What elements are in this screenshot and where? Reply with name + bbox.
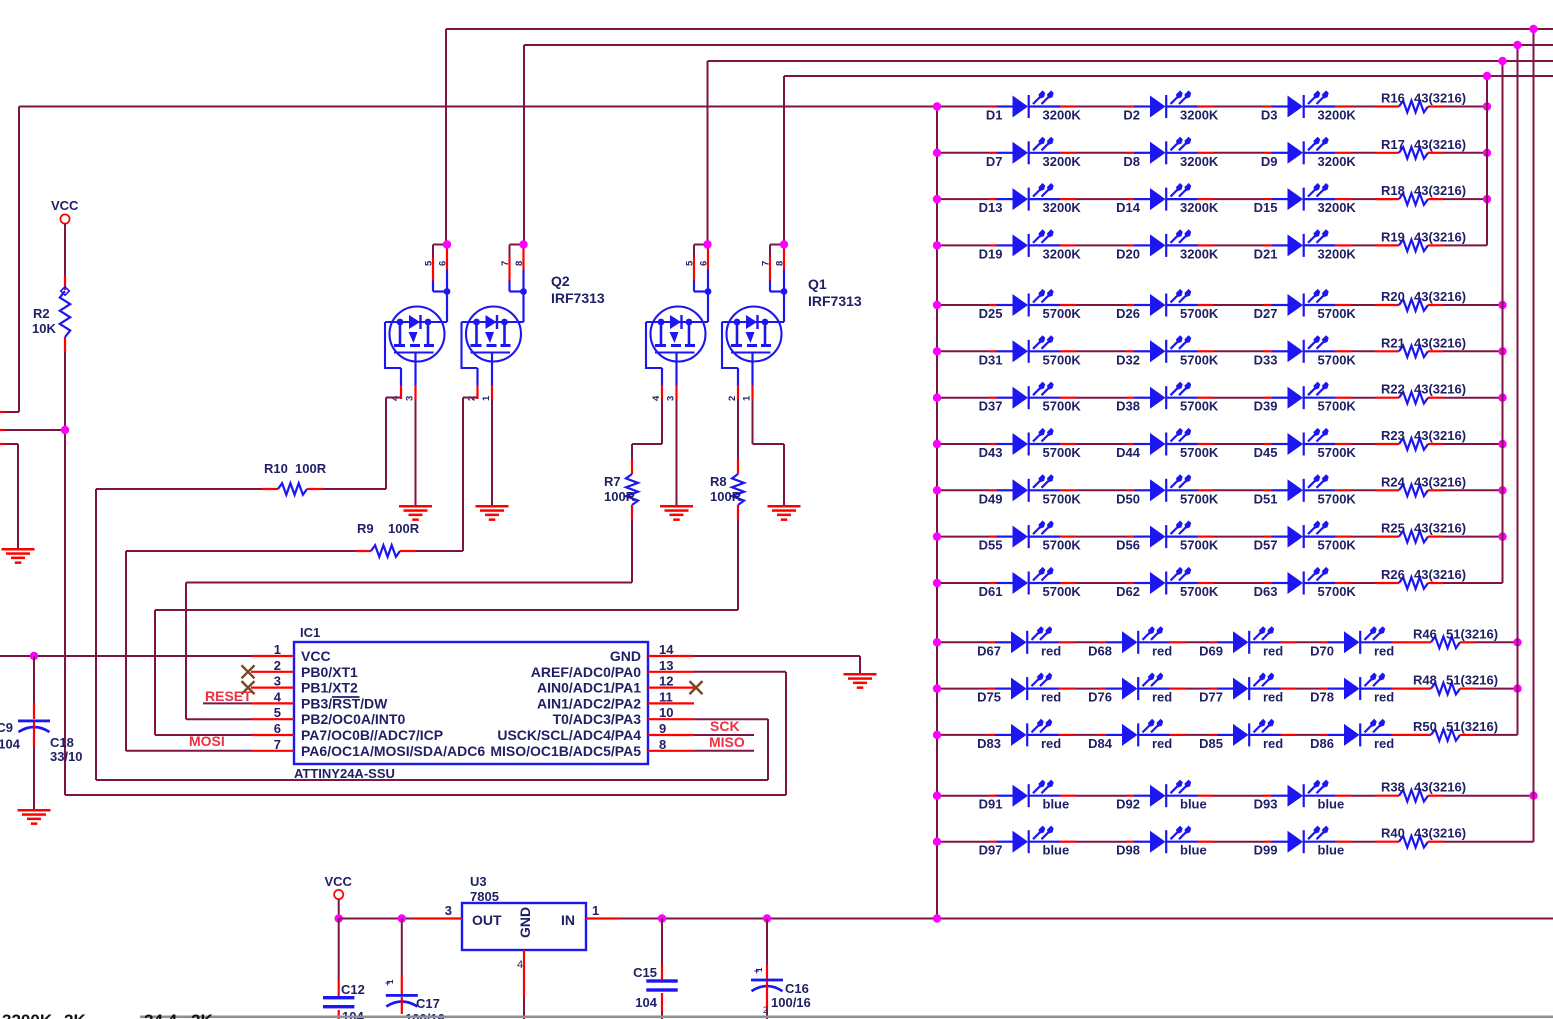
svg-text:VCC: VCC: [51, 198, 79, 213]
svg-text:D1: D1: [986, 108, 1003, 123]
svg-text:R50: R50: [1413, 719, 1437, 734]
svg-text:.: .: [94, 1011, 99, 1019]
U3 pin 3 OUT: [414, 917, 462, 919]
svg-text:red: red: [1263, 736, 1283, 751]
wire Q2B source to ground: [491, 399, 493, 505]
svg-text:D8: D8: [1123, 154, 1140, 169]
IC1 left pin 4 (PB3/RST/DW): [251, 702, 294, 704]
node row D83 left: [933, 731, 941, 739]
LED row D83..: [937, 734, 988, 736]
node RESET junction: [61, 426, 69, 434]
VCC symbol (U3): [334, 890, 343, 899]
svg-text:R24: R24: [1381, 474, 1406, 489]
svg-text:43(3216): 43(3216): [1414, 474, 1466, 489]
IC1 left pin 3 (PB1/XT2): [251, 686, 294, 688]
overbar XT2: [332, 696, 360, 698]
svg-text:5: 5: [424, 260, 435, 266]
svg-text:3200K: 3200K: [1043, 246, 1082, 261]
svg-text:MISO/OC1B/ADC5/PA5: MISO/OC1B/ADC5/PA5: [490, 743, 641, 759]
ground (IC pin14): [844, 673, 877, 676]
LED D45 5700K: [1264, 428, 1351, 456]
svg-text:D49: D49: [979, 491, 1003, 506]
LED row D37..: [937, 397, 989, 399]
U3 pin 1 IN: [586, 917, 620, 919]
ground (Q2 A): [399, 505, 432, 508]
label MISO / wire pin8: [694, 750, 754, 752]
LED D69 red: [1210, 626, 1297, 654]
svg-text:51(3216): 51(3216): [1446, 626, 1498, 641]
resistor R20 43(3216): [1351, 304, 1375, 306]
IC1 left pin 5 (PB2/OC0A/INT0): [251, 718, 294, 720]
node row D31 left: [933, 347, 941, 355]
svg-text:D69: D69: [1199, 643, 1223, 658]
node row D19 left: [933, 241, 941, 249]
svg-text:D50: D50: [1116, 491, 1140, 506]
wire right column 1: [1486, 76, 1488, 245]
wire R46 to column: [1475, 641, 1518, 643]
svg-text:R2: R2: [33, 306, 50, 321]
svg-text:43(3216): 43(3216): [1414, 521, 1466, 536]
svg-text:D83: D83: [977, 736, 1001, 751]
LED row D91..: [937, 795, 989, 797]
svg-text:PB0/XT1: PB0/XT1: [301, 664, 358, 680]
svg-text:2: 2: [763, 1005, 768, 1015]
svg-text:D78: D78: [1310, 690, 1334, 705]
wire VCC to rail: [338, 899, 340, 919]
svg-text:D57: D57: [1254, 538, 1278, 553]
svg-text:5700K: 5700K: [1180, 445, 1219, 460]
svg-text:5700K: 5700K: [1043, 491, 1082, 506]
svg-text:D84: D84: [1088, 736, 1113, 751]
svg-text:D19: D19: [979, 246, 1003, 261]
wire top bus 2: [524, 44, 1553, 46]
wire top bus 4: [784, 75, 1553, 77]
IC1 right pin 10 (T0/ADC3/PA3): [648, 718, 694, 720]
svg-text:100R: 100R: [295, 461, 327, 476]
node col1 top: [1483, 72, 1491, 80]
LED row D1..: [937, 106, 989, 108]
LED D62 5700K: [1127, 567, 1214, 595]
svg-text:3200K: 3200K: [1318, 108, 1357, 123]
svg-text:D2: D2: [1123, 108, 1140, 123]
svg-text:5: 5: [685, 260, 696, 266]
Q1 B source pin 1: [751, 353, 753, 386]
svg-text:D62: D62: [1116, 584, 1140, 599]
resistor R7 100R: [631, 444, 633, 459]
svg-text:red: red: [1374, 643, 1394, 658]
svg-text:13: 13: [659, 658, 673, 673]
svg-text:red: red: [1041, 690, 1061, 705]
transistor Q1 (A half): [646, 307, 708, 369]
svg-text:D44: D44: [1116, 445, 1141, 460]
resistor R10 100R: [96, 488, 262, 490]
svg-text:100R: 100R: [388, 521, 420, 536]
LED D61 5700K: [989, 567, 1076, 595]
svg-text:6: 6: [438, 261, 449, 266]
LED D91 blue: [989, 780, 1076, 808]
resistor R16 43(3216): [1351, 106, 1375, 108]
svg-text:5700K: 5700K: [1318, 538, 1357, 553]
svg-text:5: 5: [274, 705, 281, 720]
node row D91 right: [1529, 792, 1537, 800]
svg-text:1: 1: [742, 395, 753, 401]
svg-text:D70: D70: [1310, 643, 1334, 658]
transistor Q2 (A half): [385, 307, 447, 369]
wire Q2A gate to R10: [386, 397, 401, 399]
svg-text:2K: 2K: [64, 1011, 86, 1019]
wire Q2B gate to R9: [463, 397, 478, 399]
svg-text:5700K: 5700K: [1043, 445, 1082, 460]
node row D13 left: [933, 195, 941, 203]
wire right column 4: [1533, 29, 1535, 842]
resistor R23 43(3216): [1351, 443, 1375, 445]
IC1 right pin 12 (AIN0/ADC1/PA1): [648, 686, 694, 688]
node C18 tap: [30, 652, 38, 660]
LED D92 blue: [1127, 780, 1214, 808]
svg-text:3200K: 3200K: [1318, 246, 1357, 261]
Q2 A source pin 3: [414, 353, 416, 386]
svg-text:3: 3: [445, 903, 452, 918]
resistor R9 100R: [126, 550, 355, 552]
svg-text:MISO: MISO: [709, 734, 745, 750]
transistor Q1 (B half): [722, 307, 784, 369]
capacitor C15 104: [661, 919, 663, 965]
no-connect X pin12: [690, 681, 703, 694]
node row D7 right: [1483, 149, 1491, 157]
no-connect X pin3: [242, 681, 255, 694]
svg-text:R10: R10: [264, 461, 288, 476]
svg-text:red: red: [1152, 643, 1172, 658]
LED D15 3200K: [1264, 183, 1351, 211]
svg-text:U3: U3: [470, 874, 487, 889]
svg-text:D27: D27: [1254, 306, 1278, 321]
Q1 B drain pins 7/8: [770, 244, 784, 246]
svg-text:8: 8: [514, 261, 525, 266]
svg-text:AIN0/ADC1/PA1: AIN0/ADC1/PA1: [537, 680, 641, 696]
wire R26 to column: [1443, 582, 1503, 584]
ground (Q1 A): [660, 505, 693, 508]
svg-text:3: 3: [274, 674, 281, 689]
node row D75 right: [1513, 684, 1521, 692]
node row D97 left: [933, 838, 941, 846]
label SCK / wire pin9: [694, 734, 754, 736]
svg-text:D37: D37: [979, 399, 1003, 414]
svg-text:43(3216): 43(3216): [1414, 137, 1466, 152]
wire R16 to column: [1443, 106, 1487, 108]
svg-text:Q1: Q1: [808, 276, 827, 292]
node C12 tap: [398, 914, 406, 922]
wire R24 to column: [1443, 489, 1503, 491]
wire IC pin1 VCC rail: [0, 655, 251, 657]
LED D57 5700K: [1264, 521, 1351, 549]
LED D27 5700K: [1264, 289, 1351, 317]
wire top bus 3: [708, 60, 1553, 62]
IC1 right pin 11 (AIN1/ADC2/PA2): [648, 702, 694, 704]
wire row-feed from left header: [19, 106, 937, 108]
wire header stub B: [5, 429, 65, 431]
Q2 B gate pin 2: [476, 368, 478, 385]
svg-text:VCC: VCC: [301, 648, 331, 664]
svg-text:IRF7313: IRF7313: [808, 293, 862, 309]
resistor R18 43(3216): [1351, 198, 1375, 200]
wire Q1A gate jog to R7: [661, 399, 663, 444]
wire R50 to column: [1475, 734, 1518, 736]
svg-text:PB2/OC0A/INT0: PB2/OC0A/INT0: [301, 711, 405, 727]
Q1 B gate pin 2: [737, 368, 739, 385]
svg-text:D3: D3: [1261, 108, 1278, 123]
svg-text:D21: D21: [1254, 246, 1278, 261]
svg-text:R22: R22: [1381, 382, 1405, 397]
node C16 tap: [763, 914, 771, 922]
LED D26 5700K: [1127, 289, 1214, 317]
svg-text:C15: C15: [633, 965, 657, 980]
svg-text:D99: D99: [1254, 843, 1278, 858]
IC1 right pin 13 (AREF/ADC0/PA0): [648, 671, 694, 673]
svg-text:red: red: [1152, 736, 1172, 751]
LED D13 3200K: [989, 183, 1076, 211]
resistor R2 10K: [64, 276, 66, 290]
LED D56 5700K: [1127, 521, 1214, 549]
node row D49 left: [933, 486, 941, 494]
wire VCC to R2: [64, 224, 66, 276]
LED D3 3200K: [1264, 90, 1351, 118]
wire Q1A source to ground: [676, 399, 678, 505]
node Q1B drain: [780, 240, 788, 248]
svg-text:D92: D92: [1116, 797, 1140, 812]
node row D37 right: [1498, 394, 1506, 402]
resistor R22 43(3216): [1351, 397, 1375, 399]
resistor R40 43(3216): [1351, 841, 1375, 843]
wire IC pin14 GND to ground: [694, 655, 860, 657]
svg-text:D13: D13: [979, 200, 1003, 215]
svg-text:D20: D20: [1116, 246, 1140, 261]
LED D43 5700K: [989, 428, 1076, 456]
svg-text:D61: D61: [979, 584, 1003, 599]
LED row D49..: [937, 489, 989, 491]
LED D78 red: [1321, 673, 1408, 701]
svg-text:OUT: OUT: [472, 912, 502, 928]
wire R25 to column: [1443, 536, 1503, 538]
Q1 A gate pin 4: [661, 368, 663, 385]
LED D97 blue: [989, 826, 1076, 854]
svg-text:10K: 10K: [32, 321, 56, 336]
node Q2B drain: [519, 240, 527, 248]
LED D37 5700K: [989, 382, 1076, 410]
transistor Q2 (B half): [462, 307, 524, 369]
LED D21 3200K: [1264, 229, 1351, 257]
svg-text:D63: D63: [1254, 584, 1278, 599]
svg-text:3200K: 3200K: [1318, 200, 1357, 215]
svg-text:5700K: 5700K: [1043, 538, 1082, 553]
svg-text:D33: D33: [1254, 352, 1278, 367]
svg-text:R16: R16: [1381, 91, 1405, 106]
svg-text:3200K: 3200K: [1180, 246, 1219, 261]
LED D85 red: [1210, 719, 1297, 747]
svg-text:5700K: 5700K: [1043, 352, 1082, 367]
svg-text:blue: blue: [1180, 797, 1207, 812]
svg-text:6: 6: [274, 721, 281, 736]
node C15 tap: [658, 914, 666, 922]
resistor R19 43(3216): [1351, 244, 1375, 246]
wire R48 to column: [1475, 688, 1518, 690]
LED D39 5700K: [1264, 382, 1351, 410]
svg-text:5700K: 5700K: [1180, 584, 1219, 599]
svg-text:D51: D51: [1254, 491, 1278, 506]
svg-text:2: 2: [274, 658, 281, 673]
capacitor C16 100/16: [766, 919, 768, 966]
resistor R26 43(3216): [1351, 582, 1375, 584]
svg-text:D9: D9: [1261, 154, 1278, 169]
wire R10 right to Q2A gate: [323, 488, 386, 490]
wire R38 to column: [1443, 795, 1534, 797]
LED D31 5700K: [989, 335, 1076, 363]
svg-text:AREF/ADC0/PA0: AREF/ADC0/PA0: [531, 664, 641, 680]
svg-text:D68: D68: [1088, 643, 1112, 658]
svg-text:4: 4: [274, 689, 282, 704]
frame separator line: [140, 1016, 1553, 1019]
svg-text:5700K: 5700K: [1180, 399, 1219, 414]
svg-text:GND: GND: [517, 907, 533, 938]
node row D55 right: [1498, 532, 1506, 540]
svg-text:blue: blue: [1318, 843, 1345, 858]
LED D51 5700K: [1264, 474, 1351, 502]
LED D20 3200K: [1127, 229, 1214, 257]
LED D84 red: [1099, 719, 1186, 747]
svg-text:3: 3: [666, 396, 677, 401]
IC1 right pin 14 (GND): [648, 655, 694, 657]
LED D44 5700K: [1127, 428, 1214, 456]
LED row D61..: [937, 582, 989, 584]
svg-text:8: 8: [775, 261, 786, 266]
LED row D97..: [937, 841, 989, 843]
ground (Q2 B): [476, 505, 509, 508]
wire R22 to column: [1443, 397, 1503, 399]
node row D1 left: [933, 102, 941, 110]
LED D63 5700K: [1264, 567, 1351, 595]
capacitor C12 104: [338, 919, 340, 981]
resistor R50 51(3216): [1406, 734, 1409, 736]
svg-text:104: 104: [635, 995, 657, 1010]
node row D67 right: [1513, 638, 1521, 646]
node row D55 left: [933, 532, 941, 540]
svg-text:IRF7313: IRF7313: [551, 290, 605, 306]
svg-text:D7: D7: [986, 154, 1003, 169]
svg-text:5700K: 5700K: [1043, 399, 1082, 414]
capacitor C17 100/16: [401, 919, 403, 977]
svg-text:VCC: VCC: [325, 874, 353, 889]
IC1 left pin 1 (VCC): [251, 655, 294, 657]
node row D67 left: [933, 638, 941, 646]
svg-text:red: red: [1041, 736, 1061, 751]
svg-text:43(3216): 43(3216): [1414, 91, 1466, 106]
node row D61 left: [933, 579, 941, 587]
svg-text:43(3216): 43(3216): [1414, 229, 1466, 244]
svg-text:blue: blue: [1318, 797, 1345, 812]
svg-text:D39: D39: [1254, 399, 1278, 414]
svg-text:1: 1: [481, 395, 492, 401]
ground (header stub C): [2, 548, 35, 551]
node row D25 left: [933, 301, 941, 309]
Q2 B source pin 1: [491, 353, 493, 386]
svg-text:D14: D14: [1116, 200, 1141, 215]
LED D77 red: [1210, 673, 1297, 701]
wire header stub C: [5, 443, 18, 445]
svg-text:red: red: [1263, 690, 1283, 705]
node row D49 right: [1498, 486, 1506, 494]
LED D76 red: [1099, 673, 1186, 701]
node row D43 left: [933, 440, 941, 448]
svg-text:D55: D55: [979, 538, 1003, 553]
resistor R48 51(3216): [1406, 688, 1409, 690]
svg-text:1: 1: [386, 979, 395, 984]
node col3 top: [1513, 41, 1521, 49]
node row D91 left: [933, 792, 941, 800]
svg-text:3200K: 3200K: [1043, 200, 1082, 215]
svg-text:7: 7: [500, 261, 511, 266]
node Q2A drain: [443, 240, 451, 248]
svg-text:D43: D43: [979, 445, 1003, 460]
LED row D31..: [937, 350, 989, 352]
svg-text:5700K: 5700K: [1318, 352, 1357, 367]
voltage regulator U3 7805: [462, 903, 586, 950]
svg-text:43(3216): 43(3216): [1414, 382, 1466, 397]
svg-text:43(3216): 43(3216): [1414, 780, 1466, 795]
wire top bus 1: [446, 28, 1553, 30]
svg-text:MOSI: MOSI: [189, 733, 225, 749]
LED D86 red: [1321, 719, 1408, 747]
LED D7 3200K: [989, 137, 1076, 165]
svg-text:blue: blue: [1043, 797, 1070, 812]
LED D75 red: [988, 673, 1075, 701]
resistor R25 43(3216): [1351, 536, 1375, 538]
svg-text:3: 3: [405, 396, 416, 401]
svg-text:blue: blue: [1180, 843, 1207, 858]
label MOSI on pin7 wire: [126, 750, 251, 752]
svg-text:D85: D85: [1199, 736, 1223, 751]
svg-text:3200K: 3200K: [2, 1011, 53, 1019]
svg-text:1: 1: [592, 903, 599, 918]
svg-text:D75: D75: [977, 690, 1001, 705]
svg-text:IC1: IC1: [300, 625, 320, 640]
LED row D7..: [937, 152, 989, 154]
node col2 top: [1498, 57, 1506, 65]
svg-text:100R: 100R: [604, 489, 636, 504]
svg-text:3200K: 3200K: [1180, 154, 1219, 169]
svg-text:D45: D45: [1254, 445, 1278, 460]
svg-text:12: 12: [659, 674, 673, 689]
svg-text:4: 4: [651, 395, 662, 401]
svg-text:D97: D97: [979, 843, 1003, 858]
resistor R24 43(3216): [1351, 489, 1375, 491]
wire R21 to column: [1443, 350, 1503, 352]
svg-text:PA7/OC0B//ADC7/ICP: PA7/OC0B//ADC7/ICP: [301, 727, 443, 743]
svg-text:43(3216): 43(3216): [1414, 289, 1466, 304]
svg-text:ATTINY24A-SSU: ATTINY24A-SSU: [294, 766, 395, 781]
wire IC pin13 to loop: [694, 671, 786, 673]
svg-text:D25: D25: [979, 306, 1003, 321]
node row D37 left: [933, 394, 941, 402]
svg-text:C16: C16: [785, 981, 809, 996]
svg-text:8: 8: [659, 737, 666, 752]
LED D25 5700K: [989, 289, 1076, 317]
LED D32 5700K: [1127, 335, 1214, 363]
LED D19 3200K: [989, 229, 1076, 257]
svg-text:SCK: SCK: [710, 718, 740, 734]
svg-text:D31: D31: [979, 352, 1003, 367]
svg-text:1: 1: [755, 967, 764, 972]
LED row D67..: [937, 641, 988, 643]
wire Q1B source jog to ground: [752, 399, 754, 444]
